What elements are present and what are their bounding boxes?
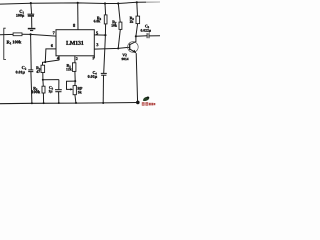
capacitor C3 [55, 80, 62, 103]
node emitter at rail [136, 101, 140, 105]
op-amp U1 LM131 box [56, 30, 94, 56]
node C4 at rail [102, 102, 104, 104]
capacitor C4 [101, 73, 107, 103]
label V2 9014 [122, 54, 129, 60]
label LM131 [66, 41, 83, 45]
pin number 5 [96, 32, 98, 35]
node collector junction [135, 35, 137, 37]
transistor Q1 V2 9014 [128, 36, 139, 102]
label C4 0.01u [88, 71, 97, 79]
node top rail at R7 [117, 2, 119, 4]
label C2 0.01u [16, 66, 26, 74]
pin number 3 [96, 43, 98, 46]
node R5 at rail [43, 102, 45, 104]
pin number 1 [93, 57, 94, 60]
capacitor C1 [28, 3, 35, 28]
wire top rail faded tail [146, 1, 160, 3]
node R2 bottom junction [74, 80, 76, 82]
node top rail at R6 [104, 2, 106, 4]
label C1 100u [16, 10, 24, 18]
watermark logo [143, 97, 150, 101]
resistor R8 [136, 2, 140, 36]
label R1 100k [7, 40, 22, 44]
node pin5 junction [104, 34, 106, 36]
label R7 10k [112, 21, 117, 27]
node R4 bottom junction [42, 79, 44, 81]
wire jog to C3 [43, 79, 59, 81]
pin number 4 [57, 57, 59, 60]
wire junction down to C2 [30, 34, 33, 69]
capacitor C2 [28, 70, 33, 103]
node C3 at rail [58, 102, 60, 104]
label C5 0.022u [141, 25, 151, 33]
node top rail at pin8 [77, 2, 79, 4]
label R2 12k [66, 64, 71, 70]
label RP 5k [77, 87, 82, 93]
wire pin6 [45, 49, 56, 62]
wire down into R4 [43, 62, 46, 65]
input terminal bracket [4, 28, 6, 59]
wire pin5 [94, 34, 105, 36]
pin number 2 [76, 57, 78, 60]
wire pin8 [77, 3, 79, 30]
node top rail at C1 [30, 2, 32, 4]
label C3 1u [49, 86, 53, 93]
node top rail at R8 [136, 1, 138, 3]
label R6 6.8k [94, 17, 101, 23]
resistor R5 [42, 80, 45, 103]
wire pin5 node down to C4 [104, 35, 106, 73]
resistor R1 [0, 33, 31, 36]
node RP at rail [75, 102, 77, 104]
wire top supply rail [0, 2, 160, 4]
resistor R2 [73, 63, 76, 81]
node C2 at rail [31, 102, 33, 104]
wire pin1 stub [93, 56, 95, 59]
wire pin7 [31, 34, 56, 36]
resistor R6 [104, 3, 107, 35]
wiper arrowhead [70, 88, 73, 90]
wire pin6 pin4 tie [45, 60, 59, 62]
label R8 1k [130, 17, 134, 23]
wire bottom ground rail [0, 103, 138, 104]
watermark red text [142, 102, 156, 105]
node pin6 corner [44, 61, 46, 63]
resistor R7 [118, 3, 122, 48]
label R4 47 [36, 66, 40, 72]
emitter arrowhead [133, 50, 137, 54]
pin number 8 [73, 24, 75, 27]
ground below C1 [28, 29, 36, 31]
resistor R4 [41, 65, 45, 80]
wire pin3 to base [94, 47, 129, 49]
pin number 7 [53, 31, 55, 34]
capacitor C5 [136, 33, 160, 38]
pin number 6 [51, 44, 53, 47]
node R1 pin7 junction [30, 33, 32, 35]
label R5 100k [32, 87, 41, 93]
wire pin4 stub [58, 56, 60, 60]
wire pin2 stub [74, 56, 76, 63]
node R7 base junction [117, 47, 119, 49]
potentiometer RP [67, 81, 77, 103]
